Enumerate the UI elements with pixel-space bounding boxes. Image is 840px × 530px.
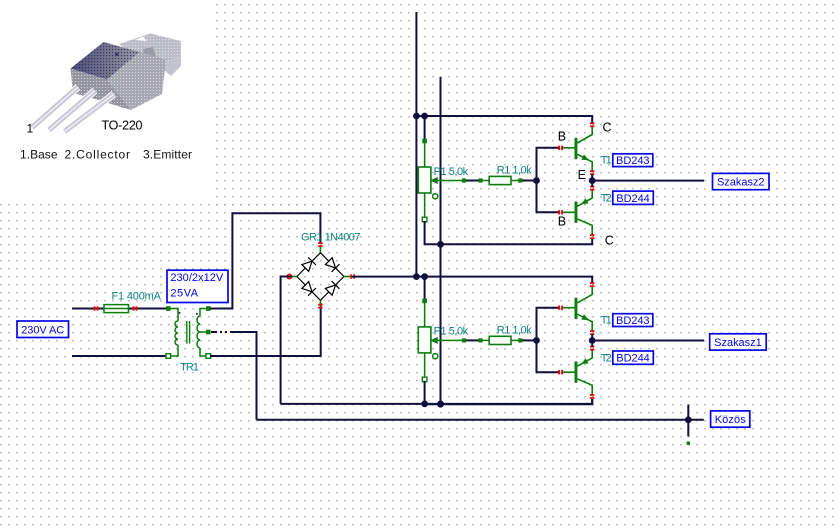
wire R1 lead right (stage lower) bbox=[511, 339, 519, 341]
wire mains top bbox=[72, 308, 168, 310]
svg-text:BD244: BD244 bbox=[616, 353, 650, 365]
terminal secondary top bbox=[206, 306, 211, 311]
wire pot bottom to feedback rail (stage upper) bbox=[425, 221, 593, 244]
connection mark T1 emitter (stage lower) bbox=[590, 330, 594, 335]
svg-text:TR1: TR1 bbox=[180, 362, 199, 374]
transistor T1 BD243 NPN (stage lower) bbox=[563, 286, 592, 331]
svg-text:P1 5,0k: P1 5,0k bbox=[434, 326, 469, 338]
terminal primary top bbox=[166, 306, 171, 311]
connection mark fuse left bbox=[94, 306, 99, 310]
wire output (stage upper) bbox=[592, 180, 704, 182]
connection mark T1 collector (stage upper) bbox=[590, 122, 594, 127]
connection mark bridge right bbox=[350, 274, 355, 278]
wire R1 to base bus (stage upper) bbox=[522, 180, 537, 182]
connection mark T2 emitter (stage upper) bbox=[590, 186, 594, 191]
node Közös bbox=[711, 411, 750, 427]
svg-text:T1: T1 bbox=[601, 155, 612, 167]
connection mark T1 base (stage lower) bbox=[558, 306, 563, 310]
wire R1 lead left (stage upper) bbox=[482, 180, 489, 182]
svg-text:R1 1,0k: R1 1,0k bbox=[497, 324, 532, 336]
svg-text:BD243: BD243 bbox=[616, 155, 650, 167]
svg-text:GR1 1N4007: GR1 1N4007 bbox=[301, 232, 361, 244]
pin legend 1.Base 2.Collector 3.Emitter bbox=[20, 148, 192, 162]
wire secondary top to bridge top bbox=[210, 213, 320, 308]
wire mid rail (y276) from bridge right bbox=[352, 277, 592, 283]
junction pot branch / y116 bbox=[421, 113, 428, 120]
wire centre tap to common rail bbox=[232, 332, 257, 420]
wire pot lead top stage upper bbox=[424, 143, 426, 167]
svg-text:R1 1,0k: R1 1,0k bbox=[497, 165, 532, 177]
svg-text:1: 1 bbox=[27, 122, 34, 136]
svg-text:T1: T1 bbox=[601, 314, 612, 326]
svg-text:TO-220: TO-220 bbox=[102, 119, 143, 133]
label BD244 (stage upper) bbox=[613, 191, 654, 205]
bridge rectifier GR1 diamond bbox=[297, 253, 344, 301]
wire wiper to R1 (stage upper) bbox=[440, 180, 464, 182]
wire wiper to R1 (stage lower) bbox=[440, 339, 464, 341]
connection mark T2 collector (stage upper) bbox=[590, 234, 594, 239]
svg-text:3.Emitter: 3.Emitter bbox=[143, 148, 192, 162]
wire R1 to base bus (stage lower) bbox=[522, 339, 537, 341]
wire T1 emitter to node (stage lower) bbox=[591, 334, 593, 341]
winding polarity dots bbox=[179, 312, 198, 315]
junction rail A / y116 bbox=[413, 113, 420, 120]
wire lower return rail (y404) bbox=[281, 398, 593, 404]
tick wiper wire (stage lower) bbox=[462, 338, 466, 342]
wire positive rail upper (y116) bbox=[416, 116, 592, 123]
connection mark T2 base (stage upper) bbox=[558, 210, 563, 214]
wire pot lead bottom stage upper bbox=[424, 193, 426, 218]
pot open-end circle (stage upper) bbox=[433, 194, 438, 199]
tick below common stub bbox=[687, 442, 690, 445]
junction rail C / feedback (stage upper) bbox=[437, 241, 444, 248]
wire output (stage lower) bbox=[592, 340, 704, 342]
diode D1 top-left bbox=[302, 257, 316, 271]
wire pot lead top stage lower bbox=[424, 303, 426, 327]
wire pot lead bottom stage lower bbox=[424, 353, 426, 378]
svg-text:230/2x12V: 230/2x12V bbox=[170, 272, 223, 284]
svg-text:2.Collector: 2.Collector bbox=[65, 148, 131, 162]
wire base bus vertical (stage lower) bbox=[537, 308, 560, 373]
svg-text:B: B bbox=[558, 215, 566, 229]
svg-text:230V AC: 230V AC bbox=[21, 324, 64, 336]
connection mark bridge top bbox=[318, 242, 322, 247]
label 230/2x12V 25VA bbox=[167, 270, 228, 302]
junction common bbox=[685, 416, 692, 423]
potentiometer wiper arrow (stage upper) bbox=[431, 178, 440, 184]
connection mark T2 emitter (stage lower) bbox=[590, 346, 594, 351]
junction base bus (stage lower) bbox=[533, 337, 540, 344]
svg-text:Szakasz1: Szakasz1 bbox=[714, 337, 762, 349]
svg-text:B: B bbox=[558, 130, 566, 144]
wire mains bottom bbox=[72, 355, 168, 357]
terminal secondary centre tap bbox=[206, 330, 211, 335]
svg-text:BD243: BD243 bbox=[616, 315, 650, 327]
terminal primary bottom bbox=[166, 354, 171, 359]
junction emitters (stage upper) bbox=[589, 177, 596, 184]
resistor R1 (stage upper) bbox=[489, 176, 511, 184]
junction emitters (stage lower) bbox=[589, 337, 596, 344]
tick pot bottom stage upper bbox=[422, 217, 427, 222]
svg-text:T2: T2 bbox=[601, 352, 612, 364]
terminal secondary bottom bbox=[206, 354, 211, 359]
connection mark fuse right bbox=[133, 306, 138, 310]
bridge stubs bbox=[319, 246, 321, 253]
junction pot branch lower / y276 bbox=[421, 273, 428, 280]
wire common stub vertical bbox=[687, 405, 689, 437]
tick R1 left (stage upper) bbox=[478, 178, 482, 182]
potentiometer P1 (stage upper) bbox=[418, 167, 431, 193]
svg-text:T2: T2 bbox=[601, 193, 612, 205]
tick pot top stage upper bbox=[422, 139, 427, 144]
tick pot top stage lower bbox=[422, 299, 427, 304]
diode D4 bottom-right bbox=[325, 281, 339, 295]
diode D2 top-right bbox=[325, 258, 339, 272]
transistor T1 BD243 NPN (stage upper) bbox=[563, 127, 592, 172]
svg-text:P1 5,0k: P1 5,0k bbox=[434, 166, 469, 178]
node 230V AC bbox=[17, 321, 69, 338]
connection mark T2 collector (stage lower) bbox=[590, 394, 594, 399]
svg-text:C: C bbox=[603, 120, 612, 134]
wire node to T2 emitter (stage upper) bbox=[591, 181, 593, 187]
transformer TR1 bbox=[168, 309, 208, 357]
transistor T2 BD244 PNP (stage lower) bbox=[563, 350, 592, 395]
connection mark T2 base (stage lower) bbox=[558, 370, 563, 374]
wire centre tap dashed bbox=[211, 331, 233, 333]
connection mark T1 emitter (stage upper) bbox=[590, 170, 594, 175]
svg-text:BD244: BD244 bbox=[616, 193, 650, 205]
svg-text:Közös: Közös bbox=[715, 414, 747, 426]
wire T1 emitter to node (stage upper) bbox=[591, 174, 593, 181]
fuse F1 bbox=[104, 305, 129, 313]
wire bridge left to bottom rail bbox=[281, 277, 292, 404]
connection mark T1 collector (stage lower) bbox=[590, 282, 594, 287]
resistor R1 (stage lower) bbox=[489, 336, 511, 344]
junction rail A end bbox=[413, 273, 420, 280]
wire node to T2 emitter (stage lower) bbox=[591, 341, 593, 347]
node Szakasz2 bbox=[713, 173, 770, 189]
pin labels B C E bbox=[558, 120, 614, 247]
junction rail C / y404 bbox=[437, 401, 444, 408]
svg-text:C: C bbox=[605, 234, 614, 248]
label BD244 (stage lower) bbox=[613, 351, 654, 365]
pot open-end circle (stage lower) bbox=[433, 354, 438, 359]
tick pot bottom stage lower bbox=[422, 377, 427, 382]
potentiometer P1 branch wire top (stage lower) bbox=[424, 276, 426, 301]
wire base bus vertical (stage upper) bbox=[537, 148, 560, 213]
svg-text:F1 400mA: F1 400mA bbox=[112, 290, 162, 302]
junction rail C / feedback (stage lower) bbox=[437, 401, 444, 408]
wire secondary bottom to bridge bottom bbox=[210, 303, 321, 356]
svg-text:E: E bbox=[578, 168, 586, 182]
svg-text:Szakasz2: Szakasz2 bbox=[717, 177, 765, 189]
svg-text:25VA: 25VA bbox=[170, 288, 198, 300]
wire pot bottom to feedback rail (stage lower) bbox=[425, 381, 593, 404]
potentiometer wiper arrow (stage lower) bbox=[431, 338, 440, 344]
diode D3 bottom-left bbox=[302, 282, 316, 296]
wire tick to tick (stage upper) bbox=[466, 180, 480, 182]
transistor T2 BD244 PNP (stage upper) bbox=[563, 190, 592, 235]
tick R1 right (stage upper) bbox=[518, 178, 522, 182]
tick R1 left (stage lower) bbox=[478, 338, 482, 342]
tick wiper wire (stage upper) bbox=[462, 178, 466, 182]
wire R1 lead right (stage upper) bbox=[511, 180, 519, 182]
potentiometer P1 (stage lower) bbox=[418, 327, 431, 353]
wire R1 lead left (stage lower) bbox=[482, 339, 489, 341]
label BD243 (stage upper) bbox=[613, 154, 653, 167]
junction pot bottom lower / y404 bbox=[421, 401, 428, 408]
connection mark bridge bottom bbox=[318, 304, 322, 309]
node Szakasz1 bbox=[710, 334, 767, 350]
potentiometer P1 branch wire top (stage upper) bbox=[424, 116, 426, 141]
junction base bus (stage upper) bbox=[533, 177, 540, 184]
wire common rail (y420) bbox=[257, 419, 704, 421]
label BD243 (stage lower) bbox=[613, 314, 653, 327]
connection mark bridge left bbox=[287, 274, 291, 278]
wire vertical rail A bbox=[415, 12, 417, 277]
wire vertical rail C bbox=[440, 77, 442, 404]
connection mark T1 base (stage upper) bbox=[558, 146, 563, 150]
wire tick to tick (stage lower) bbox=[466, 339, 480, 341]
tick R1 right (stage lower) bbox=[518, 338, 522, 342]
svg-text:1.Base: 1.Base bbox=[20, 148, 58, 162]
